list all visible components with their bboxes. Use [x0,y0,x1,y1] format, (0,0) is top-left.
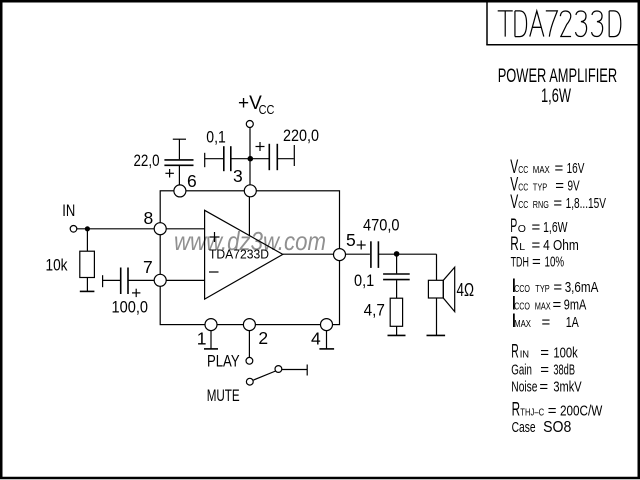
svg-text:PLAY: PLAY [207,352,240,370]
svg-text:1,8...15V: 1,8...15V [566,195,606,212]
svg-text:6: 6 [187,171,197,191]
svg-text:=: = [532,219,541,236]
svg-text:220,0: 220,0 [283,127,319,145]
svg-text:TDH: TDH [511,254,529,270]
svg-text:3mkV: 3mkV [553,379,581,396]
svg-text:10%: 10% [545,254,565,271]
svg-text:1,6W: 1,6W [541,86,571,107]
svg-text:POWER AMPLIFIER: POWER AMPLIFIER [498,66,618,87]
svg-text:L: L [519,241,525,253]
svg-text:8: 8 [144,208,154,228]
svg-text:RNG: RNG [533,199,549,211]
svg-text:200C/W: 200C/W [560,403,603,420]
svg-text:=: = [540,362,549,379]
svg-text:Gain: Gain [511,362,532,379]
svg-text:=: = [555,160,564,177]
svg-text:=: = [548,403,557,420]
svg-text:=: = [532,254,541,271]
svg-text:MAX: MAX [535,301,551,313]
svg-text:38dB: 38dB [553,362,575,379]
svg-text:3,6mA: 3,6mA [565,279,599,296]
svg-text:CC: CC [518,182,528,194]
svg-text:22,0: 22,0 [134,152,160,170]
svg-text:9V: 9V [568,178,580,195]
svg-text:MUTE: MUTE [207,387,240,405]
svg-text:=: = [555,178,564,195]
svg-text:0,1: 0,1 [206,129,226,147]
svg-text:R: R [511,342,519,363]
svg-text:=: = [553,297,562,314]
svg-text:4,7: 4,7 [364,301,385,319]
svg-text:Noise: Noise [511,379,537,396]
svg-text:10k: 10k [46,256,69,274]
svg-text:=: = [553,195,562,212]
svg-text:16V: 16V [567,160,585,177]
svg-text:1: 1 [197,329,207,349]
svg-text:V: V [510,192,518,213]
svg-text:TYP: TYP [533,182,547,194]
svg-text:=: = [540,345,549,362]
svg-text:CC: CC [518,164,528,176]
svg-text:100k: 100k [553,345,578,362]
svg-text:TDA7233D: TDA7233D [209,248,269,262]
svg-text:470,0: 470,0 [363,217,400,235]
svg-text:R: R [512,400,520,421]
svg-text:Case: Case [512,419,536,436]
svg-text:5: 5 [346,230,356,250]
svg-text:SO8: SO8 [543,419,571,436]
svg-text:IN: IN [62,202,75,220]
svg-text:=: = [553,279,562,296]
svg-text:9mA: 9mA [564,297,587,314]
svg-text:4Ω: 4Ω [457,280,475,300]
svg-text:MAX: MAX [533,164,550,176]
svg-text:4: 4 [311,329,321,349]
svg-text:4 Ohm: 4 Ohm [543,237,579,254]
svg-text:=: = [532,237,541,254]
svg-text:=: = [542,314,551,331]
svg-text:R: R [510,234,519,255]
svg-text:0,1: 0,1 [354,272,374,290]
svg-text:=: = [539,379,548,396]
svg-text:CC: CC [518,199,528,211]
svg-text:1,6W: 1,6W [543,219,568,236]
svg-text:O: O [518,223,526,235]
svg-text:CC: CC [259,103,275,117]
svg-text:TYP: TYP [535,283,549,295]
svg-text:100,0: 100,0 [112,298,149,316]
svg-text:THJ–C: THJ–C [520,407,544,419]
svg-text:IN: IN [520,349,529,361]
svg-text:1A: 1A [566,314,579,331]
svg-text:7: 7 [143,257,153,277]
svg-text:2: 2 [258,328,268,348]
svg-text:3: 3 [233,166,243,186]
svg-text:MAX: MAX [514,318,531,330]
